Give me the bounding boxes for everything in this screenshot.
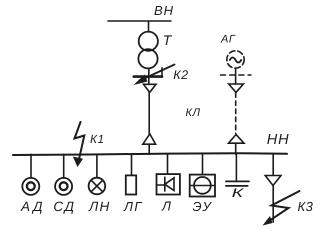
- wire: generator down: [235, 68, 237, 84]
- svg-text:ЛН: ЛН: [88, 199, 110, 214]
- svg-text:ВН: ВН: [154, 3, 174, 18]
- wire: outgoing feeder: [272, 154, 274, 175]
- svg-text:Л: Л: [161, 199, 171, 214]
- async motor AD: [22, 178, 39, 195]
- wire: feeder cable: [272, 186, 274, 223]
- cable termination (upper, generator side): [229, 84, 244, 92]
- sync motor SD: [55, 178, 72, 195]
- fault arrow K1: [75, 122, 85, 163]
- capacitor bank K: [226, 180, 249, 182]
- svg-text:К3: К3: [298, 199, 314, 214]
- svg-text:К: К: [232, 186, 244, 200]
- wire to motor SD: [63, 154, 65, 178]
- svg-text:КЛ: КЛ: [186, 107, 201, 119]
- cable termination (lower, bus side): [143, 134, 156, 144]
- wire: cable line KL: [148, 92, 150, 134]
- fault arrow K2: [141, 65, 175, 81]
- wire: transformer to cable termination: [148, 68, 150, 84]
- svg-text:АГ: АГ: [220, 34, 236, 46]
- main LV bus NN: [13, 153, 287, 155]
- svg-text:К2: К2: [173, 68, 188, 82]
- generator AG (future, dashed): [227, 51, 244, 68]
- wire to unit EU: [202, 154, 204, 174]
- svg-text:ЛГ: ЛГ: [123, 199, 143, 214]
- fault arrow K3: [266, 191, 300, 223]
- transformer T: [139, 32, 158, 51]
- wire to main bus: [148, 144, 150, 154]
- incandescent lamp LN: [89, 178, 106, 195]
- svg-text:СД: СД: [53, 199, 75, 214]
- dashed tie line: [221, 74, 252, 76]
- svg-text:Т: Т: [163, 32, 173, 48]
- svg-text:НН: НН: [267, 132, 290, 148]
- wire to lamp LG: [131, 154, 133, 175]
- wire: bus to transformer: [148, 21, 150, 32]
- electrothermal unit EU box: [190, 175, 215, 197]
- wire to lamp LN: [96, 154, 98, 177]
- svg-text:К1: К1: [90, 132, 105, 146]
- wire to main bus: [235, 143, 237, 154]
- svg-text:АД: АД: [20, 199, 45, 214]
- wire: dashed cable from generator: [235, 93, 237, 134]
- rectifier L box: [157, 174, 180, 194]
- svg-text:ЭУ: ЭУ: [193, 199, 213, 214]
- wire to motor AD: [30, 154, 32, 178]
- wire to capacitor K: [235, 154, 237, 181]
- cable termination (upper, transformer side): [144, 84, 157, 92]
- cable termination (lower, generator branch): [229, 135, 245, 144]
- wire: HV bus: [108, 20, 171, 22]
- discharge lamp LG: [126, 175, 136, 194]
- wire to rectifier L: [167, 154, 169, 173]
- cable termination (feeder): [265, 176, 281, 186]
- rectifier diode symbol: [157, 184, 165, 186]
